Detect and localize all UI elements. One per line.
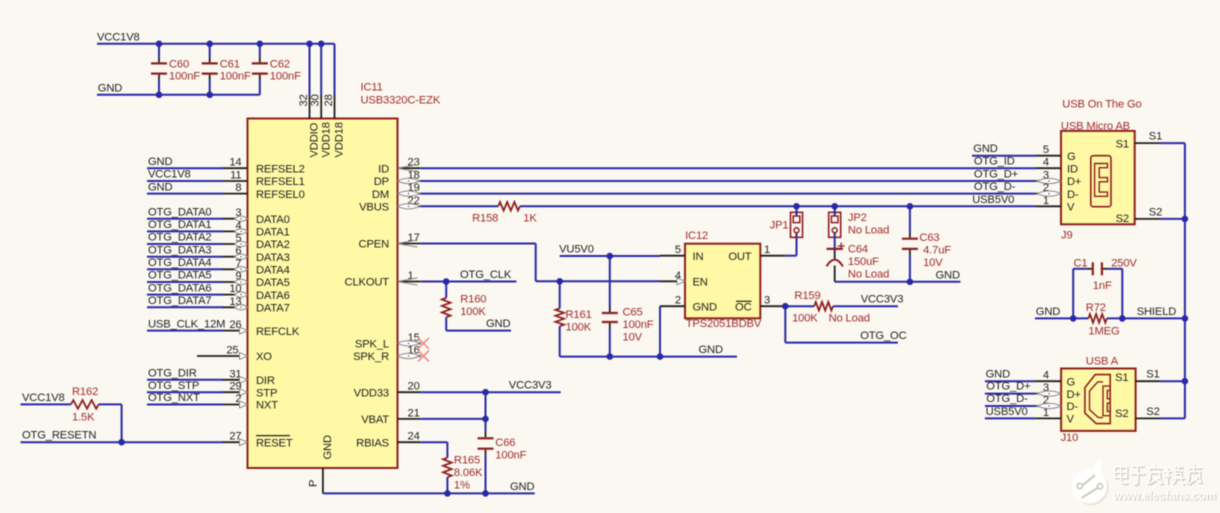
svg-text:OTG_D+: OTG_D+ bbox=[974, 169, 1018, 181]
svg-text:30: 30 bbox=[310, 94, 322, 106]
svg-text:USB5V0: USB5V0 bbox=[972, 194, 1014, 206]
svg-text:RBIAS: RBIAS bbox=[356, 437, 389, 449]
svg-text:REFSEL1: REFSEL1 bbox=[256, 176, 305, 188]
svg-text:STP: STP bbox=[256, 387, 277, 399]
svg-text:CPEN: CPEN bbox=[359, 239, 390, 251]
svg-text:OTG_DATA0: OTG_DATA0 bbox=[148, 206, 212, 218]
svg-text:GND: GND bbox=[936, 269, 960, 281]
svg-text:1: 1 bbox=[408, 270, 414, 282]
svg-text:EN: EN bbox=[693, 277, 708, 289]
svg-text:IC12: IC12 bbox=[685, 230, 708, 242]
svg-text:JP1: JP1 bbox=[770, 220, 789, 232]
svg-text:DATA0: DATA0 bbox=[256, 214, 290, 226]
svg-text:DATA6: DATA6 bbox=[256, 290, 290, 302]
svg-text:14: 14 bbox=[229, 157, 241, 169]
svg-text:No Load: No Load bbox=[848, 224, 889, 236]
svg-text:4: 4 bbox=[1043, 370, 1049, 382]
svg-text:USB_CLK_12M: USB_CLK_12M bbox=[148, 318, 225, 330]
svg-text:S2: S2 bbox=[1115, 408, 1128, 420]
svg-text:GND: GND bbox=[986, 368, 1010, 380]
svg-text:G: G bbox=[1067, 376, 1076, 388]
svg-text:11: 11 bbox=[230, 170, 241, 182]
svg-text:DATA2: DATA2 bbox=[256, 239, 290, 251]
svg-text:R159: R159 bbox=[794, 290, 820, 302]
svg-text:GND: GND bbox=[322, 435, 334, 459]
svg-text:USB A: USB A bbox=[1086, 356, 1119, 368]
svg-text:OTG_RESETN: OTG_RESETN bbox=[22, 430, 96, 442]
svg-text:DP: DP bbox=[374, 176, 389, 188]
svg-text:DATA3: DATA3 bbox=[256, 252, 290, 264]
svg-text:VCC3V3: VCC3V3 bbox=[509, 380, 552, 392]
svg-text:VDD18: VDD18 bbox=[334, 122, 346, 157]
svg-text:VU5V0: VU5V0 bbox=[559, 244, 594, 256]
svg-text:1%: 1% bbox=[454, 479, 470, 491]
svg-text:C66: C66 bbox=[495, 437, 515, 449]
svg-text:D+: D+ bbox=[1067, 389, 1081, 401]
svg-text:C60: C60 bbox=[169, 59, 189, 71]
svg-text:20: 20 bbox=[408, 381, 420, 393]
svg-text:J9: J9 bbox=[1061, 230, 1073, 242]
svg-text:P: P bbox=[308, 480, 320, 487]
svg-text:8: 8 bbox=[235, 182, 241, 194]
svg-text:S1: S1 bbox=[1146, 369, 1159, 381]
svg-text:DATA4: DATA4 bbox=[256, 265, 290, 277]
svg-text:OTG_DATA5: OTG_DATA5 bbox=[148, 270, 212, 282]
svg-text:C65: C65 bbox=[623, 307, 643, 319]
svg-text:1: 1 bbox=[1043, 195, 1049, 207]
svg-text:OTG_DATA4: OTG_DATA4 bbox=[148, 257, 212, 269]
svg-text:21: 21 bbox=[408, 407, 420, 419]
svg-text:IN: IN bbox=[693, 251, 704, 263]
svg-text:100nF: 100nF bbox=[495, 449, 526, 461]
svg-text:25: 25 bbox=[226, 345, 238, 357]
svg-text:17: 17 bbox=[408, 232, 420, 244]
svg-text:VCC1V8: VCC1V8 bbox=[148, 169, 191, 181]
svg-text:R160: R160 bbox=[460, 294, 486, 306]
svg-text:GND: GND bbox=[148, 181, 172, 193]
svg-text:GND: GND bbox=[973, 143, 997, 155]
svg-text:V: V bbox=[1067, 202, 1075, 214]
svg-text:C62: C62 bbox=[270, 59, 290, 71]
svg-text:TPS2051BDBV: TPS2051BDBV bbox=[686, 318, 762, 330]
svg-text:OTG_DIR: OTG_DIR bbox=[148, 368, 197, 380]
svg-text:1nF: 1nF bbox=[1093, 280, 1112, 292]
svg-text:VCC1V8: VCC1V8 bbox=[22, 392, 65, 404]
svg-text:VDD18: VDD18 bbox=[320, 122, 332, 157]
svg-text:4: 4 bbox=[1043, 157, 1049, 169]
svg-text:ID: ID bbox=[1067, 163, 1078, 175]
svg-text:R158: R158 bbox=[472, 213, 498, 225]
svg-text:100nF: 100nF bbox=[220, 71, 251, 83]
svg-text:D+: D+ bbox=[1067, 176, 1081, 188]
svg-text:32: 32 bbox=[298, 94, 310, 106]
svg-text:28: 28 bbox=[323, 94, 335, 106]
svg-text:GND: GND bbox=[510, 481, 534, 493]
svg-text:100nF: 100nF bbox=[270, 71, 301, 83]
svg-text:USB3320C-EZK: USB3320C-EZK bbox=[361, 94, 441, 106]
svg-text:VBUS: VBUS bbox=[359, 202, 389, 214]
svg-text:CLKOUT: CLKOUT bbox=[345, 277, 390, 289]
svg-text:S1: S1 bbox=[1116, 138, 1129, 150]
svg-text:No Load: No Load bbox=[848, 269, 889, 281]
svg-text:REFCLK: REFCLK bbox=[256, 326, 300, 338]
svg-text:OTG_DATA2: OTG_DATA2 bbox=[148, 232, 212, 244]
svg-text:OTG_DATA3: OTG_DATA3 bbox=[148, 244, 212, 256]
svg-text:23: 23 bbox=[408, 157, 420, 169]
svg-text:OC: OC bbox=[735, 301, 752, 313]
svg-text:GND: GND bbox=[693, 301, 717, 313]
svg-text:GND: GND bbox=[699, 344, 723, 356]
svg-text:5: 5 bbox=[1043, 144, 1049, 156]
svg-text:OTG_ID: OTG_ID bbox=[974, 156, 1015, 168]
svg-text:R72: R72 bbox=[1086, 302, 1106, 314]
svg-text:3: 3 bbox=[764, 295, 770, 307]
svg-text:5: 5 bbox=[675, 244, 681, 256]
svg-text:250V: 250V bbox=[1111, 257, 1137, 269]
svg-text:RESET: RESET bbox=[256, 437, 293, 449]
svg-text:4.7uF: 4.7uF bbox=[923, 245, 951, 257]
svg-text:C64: C64 bbox=[848, 244, 868, 256]
svg-text:ID: ID bbox=[378, 163, 389, 175]
svg-text:100nF: 100nF bbox=[169, 71, 200, 83]
svg-text:100K: 100K bbox=[566, 321, 592, 333]
svg-text:2: 2 bbox=[675, 295, 681, 307]
svg-text:IC11: IC11 bbox=[361, 82, 383, 94]
svg-text:C63: C63 bbox=[919, 232, 939, 244]
svg-text:GND: GND bbox=[1036, 306, 1060, 318]
svg-text:OTG_DATA6: OTG_DATA6 bbox=[148, 282, 212, 294]
svg-text:10V: 10V bbox=[623, 332, 643, 344]
svg-text:USB On The Go: USB On The Go bbox=[1062, 99, 1141, 111]
svg-text:100K: 100K bbox=[460, 306, 486, 318]
svg-text:1: 1 bbox=[764, 244, 770, 256]
svg-text:1: 1 bbox=[1043, 407, 1049, 419]
svg-text:10V: 10V bbox=[923, 257, 943, 269]
svg-text:1K: 1K bbox=[523, 213, 537, 225]
svg-text:R165: R165 bbox=[454, 455, 480, 467]
svg-text:C61: C61 bbox=[220, 59, 240, 71]
svg-text:R162: R162 bbox=[72, 386, 98, 398]
svg-text:GND: GND bbox=[148, 156, 172, 168]
svg-text:No Load: No Load bbox=[829, 313, 870, 325]
svg-text:NXT: NXT bbox=[256, 400, 278, 412]
svg-text:www.elecfans.com: www.elecfans.com bbox=[1112, 489, 1216, 503]
svg-text:SHIELD: SHIELD bbox=[1137, 306, 1177, 318]
svg-text:8.06K: 8.06K bbox=[454, 467, 483, 479]
svg-text:JP2: JP2 bbox=[848, 212, 867, 224]
svg-text:DATA5: DATA5 bbox=[256, 277, 290, 289]
svg-text:VDDIO: VDDIO bbox=[309, 122, 321, 157]
svg-text:1MEG: 1MEG bbox=[1088, 326, 1119, 338]
svg-text:SPK_L: SPK_L bbox=[355, 339, 389, 351]
svg-text:D-: D- bbox=[1067, 189, 1079, 201]
svg-text:OTG_NXT: OTG_NXT bbox=[148, 392, 200, 404]
svg-text:150uF: 150uF bbox=[848, 256, 879, 268]
svg-text:OTG_D+: OTG_D+ bbox=[986, 381, 1030, 393]
svg-text:100nF: 100nF bbox=[623, 319, 654, 331]
svg-text:J10: J10 bbox=[1061, 432, 1079, 444]
svg-text:DATA1: DATA1 bbox=[256, 227, 290, 239]
svg-text:V: V bbox=[1067, 414, 1075, 426]
svg-text:REFSEL2: REFSEL2 bbox=[256, 163, 305, 175]
svg-text:GND: GND bbox=[98, 82, 122, 94]
svg-text:S2: S2 bbox=[1116, 213, 1129, 225]
svg-text:100K: 100K bbox=[792, 313, 818, 325]
svg-text:OTG_CLK: OTG_CLK bbox=[460, 269, 512, 281]
svg-text:24: 24 bbox=[408, 431, 420, 443]
svg-text:VCC1V8: VCC1V8 bbox=[97, 31, 140, 43]
svg-text:OTG_OC: OTG_OC bbox=[860, 330, 906, 342]
svg-text:1.5K: 1.5K bbox=[72, 412, 95, 424]
svg-text:XO: XO bbox=[256, 351, 272, 363]
svg-text:R161: R161 bbox=[566, 309, 592, 321]
svg-text:USB5V0: USB5V0 bbox=[986, 406, 1028, 418]
svg-text:GND: GND bbox=[486, 318, 510, 330]
svg-text:OUT: OUT bbox=[728, 251, 751, 263]
svg-text:C1: C1 bbox=[1074, 257, 1088, 269]
svg-text:S2: S2 bbox=[1146, 406, 1159, 418]
svg-text:DIR: DIR bbox=[256, 375, 275, 387]
svg-text:OTG_D-: OTG_D- bbox=[974, 181, 1016, 193]
svg-text:VCC3V3: VCC3V3 bbox=[861, 294, 904, 306]
svg-text:OTG_D-: OTG_D- bbox=[986, 393, 1028, 405]
svg-text:DATA7: DATA7 bbox=[256, 303, 290, 315]
svg-text:S1: S1 bbox=[1149, 131, 1162, 143]
svg-text:REFSEL0: REFSEL0 bbox=[256, 189, 305, 201]
svg-text:SPK_R: SPK_R bbox=[353, 351, 389, 363]
svg-text:OTG_STP: OTG_STP bbox=[148, 380, 199, 392]
svg-text:VDD33: VDD33 bbox=[354, 387, 389, 399]
svg-text:OTG_DATA1: OTG_DATA1 bbox=[148, 219, 212, 231]
svg-text:D-: D- bbox=[1067, 401, 1079, 413]
svg-text:VBAT: VBAT bbox=[361, 414, 389, 426]
svg-text:DM: DM bbox=[372, 189, 389, 201]
svg-text:S2: S2 bbox=[1149, 206, 1162, 218]
svg-text:G: G bbox=[1067, 151, 1076, 163]
svg-text:OTG_DATA7: OTG_DATA7 bbox=[148, 295, 212, 307]
svg-text:S1: S1 bbox=[1115, 372, 1128, 384]
